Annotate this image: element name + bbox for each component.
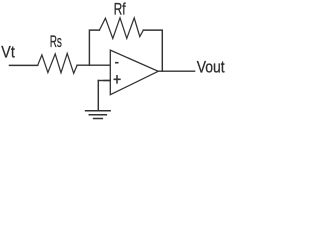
svg-text:Vt: Vt	[1, 44, 15, 62]
svg-text:Rs: Rs	[50, 33, 62, 51]
svg-text:Rf: Rf	[114, 0, 126, 18]
svg-text:Vout: Vout	[197, 58, 225, 76]
